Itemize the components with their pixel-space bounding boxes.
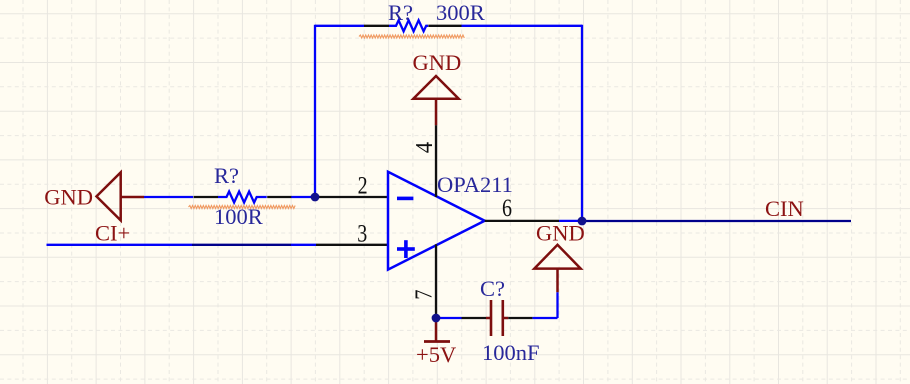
svg-text:100nF: 100nF: [482, 340, 540, 365]
svg-text:4: 4: [411, 142, 438, 154]
svg-text:+5V: +5V: [416, 342, 456, 367]
svg-text:R?: R?: [214, 163, 239, 188]
svg-text:R?: R?: [388, 0, 413, 25]
svg-text:C?: C?: [480, 276, 505, 301]
svg-text:GND: GND: [44, 185, 93, 210]
svg-text:6: 6: [502, 194, 512, 222]
svg-text:CIN: CIN: [765, 196, 804, 221]
svg-text:2: 2: [358, 171, 368, 199]
svg-text:CI+: CI+: [95, 221, 130, 246]
svg-text:3: 3: [357, 219, 367, 247]
svg-text:GND: GND: [536, 221, 585, 246]
svg-text:7: 7: [410, 289, 437, 299]
svg-text:100R: 100R: [214, 204, 263, 229]
svg-text:300R: 300R: [436, 0, 485, 25]
svg-text:GND: GND: [413, 50, 462, 75]
